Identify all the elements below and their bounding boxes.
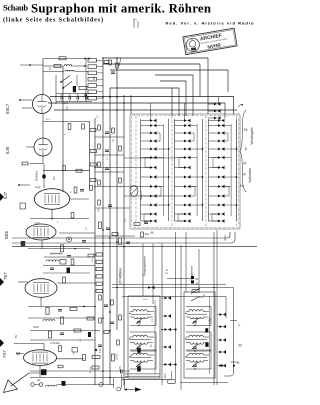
svg-text:C in: C in [165,268,169,274]
svg-text:1nF: 1nF [37,380,42,382]
svg-text:Supraphon mit amerik. Röhren: Supraphon mit amerik. Röhren [31,2,211,16]
svg-text:Aufnahme: Aufnahme [248,168,252,183]
svg-text:0,25: 0,25 [100,348,102,353]
svg-text:oben: oben [223,235,227,241]
svg-text:80+80mA: 80+80mA [36,170,39,181]
svg-text:V=V(JEL): V=V(JEL) [50,343,60,345]
svg-text:Ea: Ea [240,184,244,188]
svg-text:6E5: 6E5 [4,231,9,239]
svg-text:50+50: 50+50 [90,366,92,373]
svg-text:1nF: 1nF [73,351,75,355]
svg-text:4x0,1: 4x0,1 [62,102,69,105]
svg-text:Schaub: Schaub [3,4,28,13]
svg-text:Ta: Ta [244,128,248,132]
svg-text:Ned. Ver. v. Historie v/d Radi: Ned. Ver. v. Historie v/d Radio [166,20,255,25]
svg-text:Eingangswerte: Eingangswerte [143,256,147,276]
svg-text:UKW: UKW [33,326,39,329]
svg-text:M: M [244,162,247,166]
svg-text:(linke Seite des Schaltbildes): (linke Seite des Schaltbildes) [3,17,103,24]
svg-text:6J5: 6J5 [5,146,10,154]
svg-text:6J7: 6J7 [3,191,8,199]
svg-text:ZF=468kHz: ZF=468kHz [119,267,123,284]
svg-text:8V: 8V [14,335,18,338]
svg-text:(mal): (mal) [35,186,41,189]
svg-text:L: L [239,323,241,327]
svg-text:60V: 60V [120,365,122,370]
svg-text:7E7: 7E7 [3,272,8,280]
svg-text:A 1 1: A 1 1 [46,118,52,121]
svg-text:1M: 1M [66,107,69,110]
svg-text:(mE): (mE) [35,222,40,225]
svg-text:Ea: Ea [145,232,149,236]
svg-text:6SL7: 6SL7 [5,103,10,114]
svg-text:Skalenl.: Skalenl. [139,190,143,200]
svg-text:2M: 2M [113,139,115,142]
svg-text:Wiedergabe: Wiedergabe [250,127,254,144]
svg-text:10000: 10000 [117,353,119,360]
svg-text:100pF: 100pF [209,316,212,323]
svg-text:7S7: 7S7 [2,350,7,358]
svg-text:M: M [239,344,242,348]
svg-text:R: R [203,294,206,296]
